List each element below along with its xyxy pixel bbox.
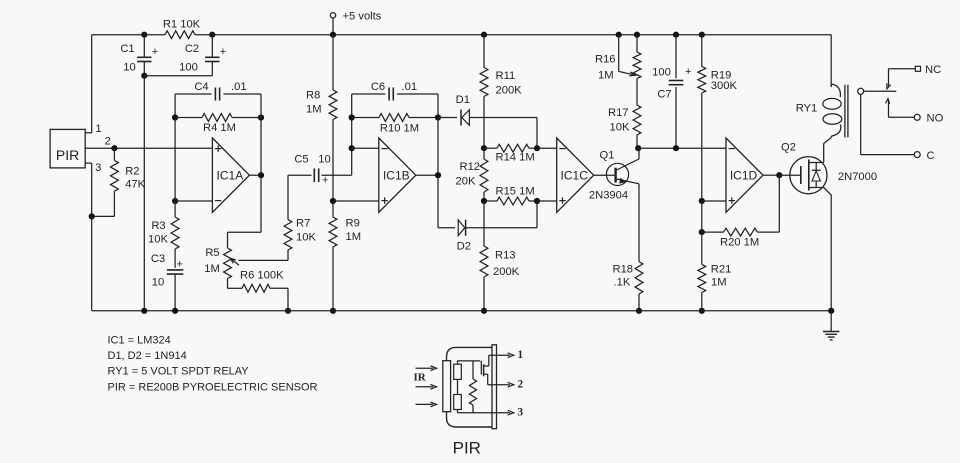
capacitor C7 [652, 35, 691, 149]
svg-text:+: + [152, 46, 158, 58]
svg-text:200K: 200K [493, 266, 520, 278]
node IC1A minus [172, 198, 178, 204]
svg-text:.01: .01 [231, 81, 247, 93]
wire IC1A out down [228, 175, 262, 232]
wire D column [437, 118, 439, 228]
potentiometer R5 [204, 232, 231, 278]
note PIR [108, 381, 318, 393]
wire Q2 drain to relay [824, 138, 832, 163]
svg-text:1M: 1M [306, 104, 322, 116]
pin 3 [85, 162, 101, 174]
svg-text:R18: R18 [613, 264, 634, 276]
svg-text:IC1B: IC1B [383, 169, 410, 183]
svg-text:300K: 300K [711, 80, 738, 92]
svg-text:47K: 47K [125, 179, 145, 191]
resistor R6 [228, 270, 289, 293]
svg-text:R8: R8 [306, 90, 320, 102]
pin 2 [85, 136, 212, 149]
resistor R14 [484, 144, 537, 163]
resistor R19 [698, 35, 738, 201]
resistor R1 [163, 18, 201, 38]
svg-text:C3: C3 [151, 253, 165, 265]
svg-text:R14 1M: R14 1M [496, 152, 535, 164]
capacitor C3 [151, 249, 183, 289]
svg-text:C6: C6 [371, 81, 385, 93]
resistor R13 [480, 201, 520, 311]
resistor R2 [111, 148, 146, 191]
PIR element wires [457, 361, 459, 413]
svg-text:+: + [220, 46, 226, 58]
resistor R7 [284, 175, 316, 260]
svg-text:R4 1M: R4 1M [203, 122, 236, 134]
svg-text:R1 10K: R1 10K [163, 18, 201, 30]
resistor R10 [352, 114, 438, 135]
node R15 right [534, 198, 540, 204]
node rail/C1 [141, 32, 147, 38]
svg-text:R20 1M: R20 1M [720, 237, 759, 249]
svg-text:R21: R21 [711, 264, 732, 276]
node IC1A output [258, 172, 264, 178]
note D1 D2 [108, 350, 187, 362]
terminal +5 volts [330, 10, 381, 34]
R16 wiper arrow [619, 35, 636, 76]
svg-text:100: 100 [179, 62, 198, 74]
svg-text:R12: R12 [460, 161, 481, 173]
note IC1 [108, 334, 171, 346]
wire Q2 source to rail [824, 188, 832, 311]
wire Q1 emitter down [638, 184, 640, 262]
relay NO contact [886, 99, 944, 125]
relay common contact [858, 88, 897, 94]
wire C5 to feedback column [351, 94, 353, 175]
transistor Q2 [779, 142, 877, 194]
wire IC1B output [416, 174, 438, 176]
svg-text:+: + [177, 258, 183, 270]
node R6/rail [285, 308, 291, 314]
svg-text:D1, D2 = 1N914: D1, D2 = 1N914 [108, 350, 187, 362]
svg-text:R17: R17 [608, 107, 629, 119]
wire R6 to rail [287, 288, 289, 311]
wire C3 to ground rail [174, 274, 176, 311]
svg-text:R9: R9 [346, 218, 360, 230]
svg-text:R5: R5 [205, 247, 219, 259]
svg-text:IC1C: IC1C [561, 169, 589, 183]
op-amp IC1C [557, 138, 594, 212]
wire to IC1B plus [333, 200, 379, 202]
wire minus input line [174, 118, 176, 202]
wire pin3 down left side [91, 163, 93, 311]
svg-text:C: C [927, 150, 935, 162]
svg-text:1: 1 [95, 123, 101, 135]
ground rail [92, 310, 832, 312]
op-amp IC1D [726, 138, 763, 212]
resistor R9 [329, 201, 361, 311]
capacitor C6 [352, 81, 438, 101]
svg-text:.01: .01 [402, 81, 418, 93]
svg-text:10: 10 [318, 153, 330, 165]
svg-text:PIR: PIR [453, 439, 481, 458]
svg-text:IC1A: IC1A [217, 169, 244, 183]
potentiometer R16 [595, 35, 641, 82]
svg-text:2: 2 [518, 379, 524, 391]
wire top rail right of R1 [195, 34, 831, 36]
resistor R12 [456, 148, 488, 201]
resistor R18 [613, 262, 643, 311]
node R9/rail [330, 308, 336, 314]
relay NC contact [887, 64, 941, 89]
op-amp IC1A [212, 138, 249, 212]
node R18/rail [636, 308, 642, 314]
svg-text:IR: IR [414, 372, 427, 384]
pin 1 [85, 123, 101, 135]
node IC1B minus [349, 145, 355, 151]
svg-text:R6 100K: R6 100K [240, 270, 284, 282]
svg-text:10K: 10K [148, 234, 168, 246]
svg-text:1M: 1M [711, 276, 727, 288]
svg-text:R2: R2 [125, 165, 139, 177]
node R14 left [481, 145, 487, 151]
svg-text:3: 3 [518, 407, 524, 419]
node R14 right [534, 145, 540, 151]
wire collector row [638, 147, 726, 149]
svg-text:PIR = RE200B PYROELECTRIC SENS: PIR = RE200B PYROELECTRIC SENSOR [108, 381, 318, 393]
resistor R20 feedback [702, 175, 780, 249]
node C1-line/rail [141, 308, 147, 314]
wire D2 to R15 right [536, 201, 538, 228]
R5 wiper arrow [230, 258, 288, 265]
svg-text:C1: C1 [120, 43, 134, 55]
node R4/C4 left [172, 114, 178, 120]
node rail/C2 [209, 32, 215, 38]
svg-text:3: 3 [95, 162, 101, 174]
svg-text:1M: 1M [204, 263, 220, 275]
wire +5V top rail left segment [92, 34, 165, 36]
resistor R11 [480, 35, 522, 149]
wire IC1D output [764, 174, 780, 176]
node R15 left [481, 198, 487, 204]
wire rail down to relay [830, 35, 832, 87]
svg-text:C2: C2 [185, 43, 199, 55]
node C7 bottom [673, 145, 679, 151]
diode D2 [438, 220, 537, 253]
capacitor C2 [179, 35, 226, 74]
PIR pin 2 arrow [508, 379, 524, 391]
svg-text:R11: R11 [496, 70, 516, 82]
svg-text:IC1 = LM324: IC1 = LM324 [108, 334, 171, 346]
node rail/R16 [634, 32, 640, 38]
svg-text:10K: 10K [610, 121, 630, 133]
svg-text:NO: NO [927, 113, 944, 125]
svg-text:C4: C4 [194, 81, 208, 93]
IR arrow 2 [416, 384, 437, 389]
svg-text:2: 2 [105, 136, 111, 148]
wire IC1A output [249, 174, 261, 176]
svg-text:+5 volts: +5 volts [343, 10, 382, 22]
svg-text:Q2: Q2 [781, 142, 796, 154]
PIR header plate [492, 345, 497, 429]
node IC1D output [776, 172, 782, 178]
PIR FET source wire [488, 374, 510, 385]
PIR gate resistor [469, 361, 476, 413]
wire C6 right down [437, 94, 439, 118]
node R13/rail [481, 308, 487, 314]
svg-text:+: + [322, 174, 328, 186]
wire to IC1D plus [702, 200, 726, 202]
node R4/C4 right [258, 114, 264, 120]
svg-text:RY1 = 5 VOLT SPDT RELAY: RY1 = 5 VOLT SPDT RELAY [108, 366, 250, 378]
IR arrow 1 [416, 366, 437, 371]
svg-text:R13: R13 [495, 250, 516, 262]
node IC1B plus [330, 198, 336, 204]
wire R2 bottom jog [92, 191, 115, 216]
node R20 left [699, 229, 705, 235]
node R10/C6 left [349, 114, 355, 120]
node rail/R16 wiper [616, 32, 622, 38]
node ground [828, 308, 834, 314]
svg-text:+: + [685, 66, 691, 78]
node Q1 collector [635, 145, 641, 151]
svg-text:1: 1 [518, 349, 524, 361]
PIR FET [481, 361, 489, 376]
resistor R3 [148, 201, 179, 249]
svg-text:10: 10 [152, 277, 164, 289]
svg-text:D1: D1 [456, 94, 470, 106]
resistor R17 [608, 79, 641, 149]
IR arrow 3 [416, 402, 437, 407]
wire R15 to IC1C plus [537, 200, 557, 202]
PIR case [447, 347, 493, 427]
node pin3/R2 [89, 213, 95, 219]
node rail/R19 [699, 32, 705, 38]
op-amp IC1B [379, 138, 416, 212]
ground symbol [823, 311, 839, 340]
svg-text:RY1: RY1 [796, 103, 818, 115]
svg-text:C7: C7 [657, 89, 671, 101]
node R21/rail [699, 308, 705, 314]
wire Q1 collector up [638, 148, 640, 159]
svg-text:R7: R7 [296, 218, 310, 230]
node C3/rail [172, 308, 178, 314]
capacitor C1 [120, 35, 158, 74]
svg-text:C5: C5 [294, 153, 308, 165]
relay RY1 coil [796, 84, 842, 138]
svg-text:2N3904: 2N3904 [589, 190, 628, 202]
wire IC1C out to Q1 base [594, 174, 615, 176]
node rail/C7 [673, 32, 679, 38]
wire to IC1A minus [175, 200, 212, 202]
svg-text:NC: NC [925, 64, 941, 76]
PIR element 2 [454, 395, 462, 410]
wire C4 right down [260, 94, 262, 175]
wire C1-C2 bottom [144, 62, 212, 76]
wire below C1 [143, 62, 145, 311]
wire to IC1B minus [352, 147, 379, 149]
PIR FET drain wire [489, 355, 510, 366]
node IC1D plus [699, 198, 705, 204]
svg-text:10: 10 [123, 62, 135, 74]
svg-text:R15 1M: R15 1M [496, 186, 535, 198]
diode D1 [438, 94, 537, 126]
svg-text:PIR: PIR [56, 147, 79, 163]
node IC1B output [435, 172, 441, 178]
svg-text:2N7000: 2N7000 [838, 171, 877, 183]
svg-text:R3: R3 [151, 220, 165, 232]
node R10/C6 right [435, 114, 441, 120]
note RY1 [108, 366, 250, 378]
svg-text:20K: 20K [456, 176, 476, 188]
PIR pin 3 arrow [508, 407, 524, 419]
relay core [845, 85, 848, 138]
capacitor C4 [175, 81, 261, 101]
PIR bottom bus [457, 412, 510, 414]
resistor R15 [484, 186, 537, 205]
resistor R4 [175, 114, 261, 135]
wire R14 to IC1C minus [537, 147, 557, 149]
wire C4 left down [174, 94, 176, 118]
PIR sensor box [50, 129, 85, 168]
capacitor C5 [288, 153, 352, 186]
svg-text:Q1: Q1 [600, 149, 615, 161]
svg-text:200K: 200K [496, 85, 523, 97]
svg-text:100: 100 [652, 67, 671, 79]
node pin2/R2 [111, 145, 117, 151]
svg-text:.1K: .1K [614, 276, 631, 288]
svg-text:R10 1M: R10 1M [380, 123, 419, 135]
relay C terminal [861, 94, 935, 162]
PIR top bus [457, 360, 480, 362]
resistor R21 [698, 201, 731, 311]
wire D1 to R14 right [536, 118, 538, 149]
resistor R8 [306, 35, 337, 201]
svg-text:IC1D: IC1D [730, 169, 758, 183]
node rail/R8 [330, 32, 336, 38]
label PIR bottom [453, 439, 481, 458]
label IR [414, 372, 427, 384]
svg-text:R16: R16 [595, 54, 616, 66]
node rail/R11 [481, 32, 487, 38]
wire pin1 to top rail [91, 35, 93, 133]
svg-text:1M: 1M [346, 231, 362, 243]
PIR element 1 [454, 364, 462, 379]
transistor Q1 [589, 149, 639, 201]
svg-text:D2: D2 [457, 241, 471, 253]
PIR pin 1 arrow [508, 349, 524, 361]
svg-text:1M: 1M [598, 69, 614, 81]
svg-text:10K: 10K [296, 232, 316, 244]
node C1 bottom [141, 73, 147, 79]
PIR window [443, 361, 451, 412]
